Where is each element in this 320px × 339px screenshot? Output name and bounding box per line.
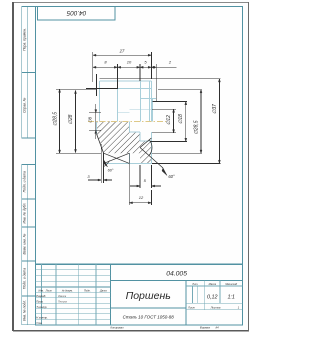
svg-text:Инв. № дубл.: Инв. № дубл.	[23, 203, 27, 224]
svg-text:Взам. инв. №: Взам. инв. №	[23, 233, 27, 254]
svg-text:Петров: Петров	[58, 300, 68, 303]
svg-text:10: 10	[127, 60, 132, 65]
svg-text:Разраб.: Разраб.	[36, 294, 46, 298]
svg-text:Иванов: Иванов	[58, 295, 67, 298]
svg-text:Инв. № подл.: Инв. № подл.	[23, 300, 27, 321]
svg-text:Подп. и дата: Подп. и дата	[23, 171, 27, 192]
svg-text:Формат: Формат	[200, 325, 211, 329]
svg-text:∅8: ∅8	[88, 116, 93, 123]
svg-text:Изм.: Изм.	[39, 289, 45, 292]
svg-text:60°: 60°	[168, 174, 175, 179]
svg-text:Т.контр.: Т.контр.	[36, 305, 47, 309]
svg-text:Н.контр.: Н.контр.	[36, 315, 48, 319]
svg-text:Перв. примен.: Перв. примен.	[23, 28, 27, 51]
svg-text:Поршень: Поршень	[126, 290, 171, 302]
svg-text:Дата: Дата	[99, 289, 107, 292]
svg-text:Подп.: Подп.	[84, 289, 91, 292]
svg-text:Утв.: Утв.	[36, 321, 42, 325]
svg-text:Подп. и дата: Подп. и дата	[23, 268, 27, 289]
svg-text:∅12: ∅12	[166, 115, 172, 125]
svg-text:Сталь 10 ГОСТ 1050-88: Сталь 10 ГОСТ 1050-88	[123, 314, 175, 319]
svg-text:Справ. №: Справ. №	[23, 97, 27, 113]
svg-text:Лит.: Лит.	[191, 283, 198, 286]
svg-text:Лист: Лист	[45, 289, 52, 292]
svg-text:1:1: 1:1	[227, 295, 235, 301]
svg-text:27: 27	[119, 48, 125, 53]
svg-text:Листов: Листов	[210, 305, 221, 309]
svg-text:∅37: ∅37	[212, 104, 218, 114]
svg-text:∅28,5: ∅28,5	[52, 112, 58, 126]
svg-text:∅28,5: ∅28,5	[193, 120, 199, 134]
svg-text:Лист: Лист	[187, 305, 196, 309]
svg-text:12: 12	[139, 195, 144, 200]
svg-text:∅28: ∅28	[68, 114, 74, 124]
svg-text:А4: А4	[214, 325, 219, 329]
svg-text:№ докум.: № докум.	[62, 289, 73, 292]
svg-text:Масштаб: Масштаб	[225, 283, 237, 286]
svg-text:Пров.: Пров.	[36, 299, 43, 303]
svg-text:04.005: 04.005	[66, 9, 86, 16]
svg-text:Копировал: Копировал	[111, 325, 124, 329]
svg-text:∅18: ∅18	[178, 114, 184, 124]
svg-text:0,12: 0,12	[207, 295, 218, 301]
svg-text:04.005: 04.005	[166, 271, 187, 278]
svg-text:Масса: Масса	[209, 283, 217, 286]
svg-text:60°: 60°	[108, 169, 114, 173]
